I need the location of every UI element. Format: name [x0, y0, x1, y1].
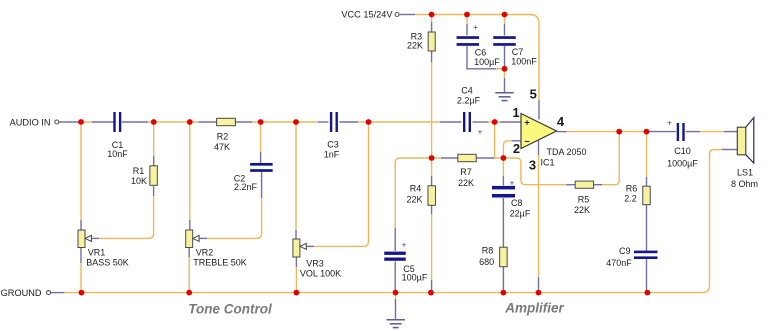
- svg-text:22K: 22K: [406, 195, 422, 205]
- svg-text:BASS 50K: BASS 50K: [86, 257, 129, 267]
- svg-text:+: +: [510, 178, 515, 188]
- svg-text:VCC 15/24V: VCC 15/24V: [341, 10, 393, 20]
- svg-text:470nF: 470nF: [606, 258, 632, 268]
- svg-text:1nF: 1nF: [324, 149, 340, 159]
- svg-text:R6: R6: [626, 184, 638, 194]
- svg-text:VOL 100K: VOL 100K: [300, 269, 341, 279]
- svg-text:R2: R2: [217, 131, 229, 141]
- svg-text:C8: C8: [511, 198, 523, 208]
- svg-text:R5: R5: [578, 195, 590, 205]
- svg-text:3: 3: [529, 158, 536, 173]
- svg-text:R4: R4: [410, 184, 422, 194]
- svg-text:GROUND: GROUND: [1, 288, 42, 298]
- svg-text:100µF: 100µF: [474, 57, 500, 67]
- svg-text:+: +: [524, 117, 530, 128]
- svg-text:22K: 22K: [574, 205, 590, 215]
- svg-text:2.2: 2.2: [624, 194, 637, 204]
- svg-text:22µF: 22µF: [510, 208, 531, 218]
- svg-text:8 Ohm: 8 Ohm: [731, 179, 758, 189]
- svg-text:1000µF: 1000µF: [667, 159, 698, 169]
- svg-text:1: 1: [512, 105, 519, 120]
- svg-text:680: 680: [479, 257, 494, 267]
- svg-text:Amplifier: Amplifier: [504, 301, 564, 316]
- svg-text:2.2nF: 2.2nF: [234, 182, 258, 192]
- svg-text:+: +: [473, 22, 478, 32]
- svg-text:R1: R1: [133, 166, 145, 176]
- svg-text:22K: 22K: [458, 178, 474, 188]
- svg-text:100nF: 100nF: [511, 57, 537, 67]
- svg-text:TREBLE 50K: TREBLE 50K: [193, 257, 247, 267]
- svg-text:R7: R7: [460, 167, 472, 177]
- svg-text:C4: C4: [461, 86, 473, 96]
- svg-text:VR1: VR1: [88, 247, 106, 257]
- svg-text:VR2: VR2: [196, 247, 214, 257]
- svg-text:C3: C3: [327, 139, 339, 149]
- svg-text:VR3: VR3: [306, 259, 324, 269]
- svg-text:R8: R8: [482, 246, 494, 256]
- svg-text:C10: C10: [674, 146, 691, 156]
- svg-text:10nF: 10nF: [107, 149, 128, 159]
- svg-text:TDA 2050: TDA 2050: [546, 147, 586, 157]
- svg-text:IC1: IC1: [540, 158, 554, 168]
- svg-text:+: +: [402, 239, 407, 249]
- svg-text:2: 2: [513, 141, 520, 156]
- svg-text:4: 4: [557, 114, 565, 129]
- svg-text:5: 5: [530, 87, 537, 102]
- svg-text:10K: 10K: [131, 176, 147, 186]
- svg-text:+: +: [478, 127, 483, 137]
- svg-text:22K: 22K: [407, 40, 423, 50]
- svg-text:AUDIO IN: AUDIO IN: [10, 117, 51, 127]
- svg-text:+: +: [667, 118, 672, 128]
- svg-text:47K: 47K: [214, 142, 230, 152]
- svg-text:Tone Control: Tone Control: [188, 302, 272, 317]
- svg-text:100µF: 100µF: [402, 273, 428, 283]
- svg-text:C9: C9: [619, 246, 631, 256]
- svg-text:−: −: [524, 136, 530, 147]
- svg-text:LS1: LS1: [737, 168, 753, 178]
- svg-text:2.2µF: 2.2µF: [457, 96, 481, 106]
